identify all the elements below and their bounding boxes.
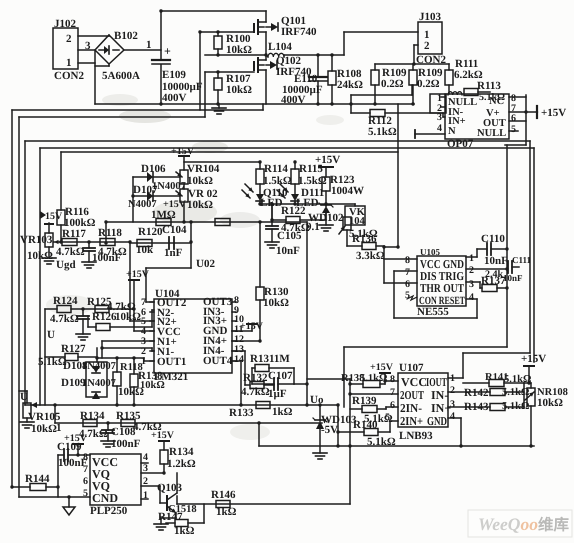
svg-text:LM321: LM321 [154, 371, 188, 383]
svg-text:10nF: 10nF [276, 245, 300, 257]
svg-text:U107: U107 [399, 362, 424, 374]
svg-text:R139: R139 [352, 395, 377, 407]
svg-text:400V: 400V [281, 94, 306, 106]
svg-text:IOUT: IOUT [426, 375, 447, 389]
svg-text:10kΩ: 10kΩ [187, 175, 213, 187]
svg-text:R118: R118 [98, 227, 122, 239]
svg-text:C108: C108 [111, 426, 136, 438]
svg-text:6: 6 [511, 113, 516, 124]
svg-text:WeeQoo维库: WeeQoo维库 [478, 514, 569, 534]
svg-text:R132: R132 [243, 372, 268, 384]
svg-text:0.2Ω: 0.2Ω [381, 78, 404, 90]
svg-text:Uo: Uo [310, 394, 324, 406]
svg-text:D107: D107 [133, 184, 158, 196]
svg-text:1: 1 [146, 39, 152, 51]
svg-text:4.7kΩ: 4.7kΩ [50, 313, 79, 325]
svg-text:1: 1 [469, 253, 474, 264]
svg-text:+: + [164, 44, 171, 58]
svg-text:0.2Ω: 0.2Ω [417, 78, 440, 90]
svg-text:7: 7 [405, 267, 410, 278]
svg-text:N4007: N4007 [128, 199, 157, 210]
svg-text:R134: R134 [169, 446, 194, 458]
svg-text:7: 7 [83, 464, 88, 475]
svg-text:4: 4 [437, 123, 442, 134]
svg-text:24kΩ: 24kΩ [337, 79, 363, 91]
svg-text:R134: R134 [80, 410, 105, 422]
svg-text:1kΩ: 1kΩ [216, 506, 237, 518]
svg-text:OUT4: OUT4 [203, 355, 233, 367]
svg-text:4: 4 [450, 411, 455, 422]
svg-text:1kΩ: 1kΩ [174, 525, 195, 537]
svg-text:IRF740: IRF740 [281, 26, 317, 38]
svg-text:1kΩ: 1kΩ [272, 406, 293, 418]
svg-text:GND: GND [427, 414, 447, 428]
svg-text:R144: R144 [25, 473, 50, 485]
svg-text:+15V: +15V [370, 362, 394, 373]
svg-text:R114: R114 [264, 163, 288, 175]
svg-text:2OUT: 2OUT [400, 388, 424, 402]
svg-text:4.7kΩ: 4.7kΩ [56, 246, 85, 258]
svg-text:-5V: -5V [321, 424, 338, 436]
svg-text:1: 1 [141, 356, 146, 367]
svg-text:1.2kΩ: 1.2kΩ [167, 458, 196, 470]
svg-text:IN+: IN+ [431, 401, 451, 415]
svg-text:3: 3 [437, 112, 442, 123]
svg-text:7: 7 [390, 387, 395, 398]
svg-text:+15V: +15V [521, 353, 546, 365]
svg-text:R122: R122 [281, 205, 306, 217]
svg-text:10kΩ: 10kΩ [27, 250, 53, 262]
svg-text:NE555: NE555 [417, 306, 449, 318]
svg-text:14: 14 [234, 354, 244, 365]
svg-text:15V: 15V [45, 211, 63, 222]
svg-text:+15V: +15V [315, 154, 340, 166]
svg-text:B102: B102 [114, 30, 138, 42]
svg-text:2IN+: 2IN+ [400, 414, 423, 428]
svg-text:1004W: 1004W [331, 185, 364, 197]
svg-text:R120: R120 [138, 226, 163, 238]
svg-text:1µF: 1µF [268, 388, 287, 400]
svg-text:400V: 400V [162, 92, 187, 104]
svg-text:1N4007: 1N4007 [82, 378, 116, 389]
svg-text:6: 6 [405, 279, 410, 290]
svg-text:5.1kΩ: 5.1kΩ [367, 436, 396, 448]
svg-text:VCC: VCC [401, 375, 427, 389]
svg-text:U: U [47, 329, 55, 341]
svg-text:4.7kΩ: 4.7kΩ [241, 386, 270, 398]
svg-text:10kΩ: 10kΩ [263, 297, 289, 309]
svg-text:C109: C109 [57, 441, 82, 453]
svg-text:4.7kΩ: 4.7kΩ [281, 222, 310, 234]
svg-text:PLP250: PLP250 [90, 505, 128, 517]
svg-text:R133: R133 [229, 407, 254, 419]
svg-text:CON2: CON2 [54, 70, 84, 82]
svg-text:R146: R146 [211, 489, 236, 501]
svg-text:5.1kΩ: 5.1kΩ [502, 387, 529, 398]
svg-text:R117: R117 [62, 228, 86, 240]
svg-text:10nF: 10nF [484, 255, 508, 267]
svg-text:4: 4 [469, 292, 474, 303]
svg-text:L104: L104 [268, 41, 292, 53]
svg-text:R113: R113 [477, 80, 501, 92]
svg-text:OUT1: OUT1 [157, 356, 186, 368]
svg-text:Ugd: Ugd [56, 259, 76, 271]
svg-text:THR OUT: THR OUT [420, 281, 464, 295]
svg-text:10kΩ: 10kΩ [187, 199, 213, 211]
svg-text:R1311M: R1311M [250, 353, 290, 365]
svg-text:10kΩ: 10kΩ [226, 84, 252, 96]
svg-text:+15V: +15V [541, 107, 566, 119]
svg-text:2: 2 [66, 33, 72, 45]
svg-text:5: 5 [511, 124, 516, 135]
svg-text:J103: J103 [419, 11, 442, 23]
svg-text:4: 4 [143, 452, 148, 463]
svg-text:LNB93: LNB93 [399, 430, 433, 442]
svg-text:2: 2 [424, 40, 430, 52]
svg-text:R147: R147 [158, 511, 183, 523]
svg-text:R140: R140 [353, 419, 378, 431]
svg-text:D106: D106 [141, 163, 166, 175]
svg-text:8: 8 [83, 452, 88, 463]
svg-text:100nF: 100nF [111, 438, 141, 450]
svg-text:CND: CND [92, 491, 118, 505]
svg-text:R124: R124 [53, 295, 78, 307]
svg-text:8: 8 [390, 374, 395, 385]
svg-text:2: 2 [469, 265, 474, 276]
svg-text:10nF: 10nF [503, 273, 523, 283]
svg-text:R136: R136 [352, 233, 377, 245]
svg-text:10kΩ: 10kΩ [537, 397, 563, 409]
svg-text:8: 8 [405, 255, 410, 266]
svg-text:E109: E109 [162, 69, 186, 81]
svg-text:5.1kΩ: 5.1kΩ [368, 126, 397, 138]
svg-text:6: 6 [390, 400, 395, 411]
svg-text:N: N [448, 126, 456, 137]
svg-text:+15V: +15V [163, 199, 187, 210]
svg-text:5.1kΩ: 5.1kΩ [502, 401, 529, 412]
svg-text:Q103: Q103 [157, 482, 183, 494]
svg-text:1MΩ: 1MΩ [151, 209, 176, 221]
svg-text:C107: C107 [268, 370, 293, 382]
svg-text:3.3kΩ: 3.3kΩ [356, 250, 385, 262]
svg-text:10kΩ: 10kΩ [31, 423, 57, 435]
svg-text:5.1kΩ: 5.1kΩ [360, 373, 387, 384]
svg-text:+15V: +15V [151, 430, 175, 441]
svg-text:C104: C104 [162, 224, 187, 236]
svg-text:R127: R127 [61, 343, 86, 355]
svg-text:5.1kΩ: 5.1kΩ [479, 92, 505, 103]
svg-text:C110: C110 [481, 233, 505, 245]
svg-text:10k: 10k [136, 244, 154, 256]
svg-text:R143: R143 [464, 401, 489, 413]
svg-text:1: 1 [66, 57, 72, 69]
svg-text:4.7kΩ: 4.7kΩ [98, 246, 127, 258]
svg-text:10kΩ: 10kΩ [226, 44, 252, 56]
svg-text:2: 2 [450, 385, 455, 396]
svg-text:3: 3 [450, 399, 455, 410]
svg-text:3: 3 [469, 279, 474, 290]
svg-text:NULL: NULL [477, 128, 506, 139]
svg-text:1.5kΩ: 1.5kΩ [263, 175, 292, 187]
svg-text:U02: U02 [196, 258, 215, 270]
svg-text:2IN-: 2IN- [400, 401, 422, 415]
svg-text:1: 1 [56, 422, 62, 434]
svg-text:C111: C111 [512, 255, 532, 265]
svg-text:VR103: VR103 [20, 234, 53, 246]
svg-text:6: 6 [83, 476, 88, 487]
svg-text:IN-: IN- [431, 388, 448, 402]
svg-text:R126: R126 [92, 311, 117, 323]
svg-text:VR104: VR104 [187, 163, 220, 175]
svg-text:1N4007: 1N4007 [82, 361, 116, 372]
svg-text:R142: R142 [464, 387, 489, 399]
svg-text:1nF: 1nF [164, 247, 183, 259]
svg-text:5A600A: 5A600A [102, 70, 140, 82]
